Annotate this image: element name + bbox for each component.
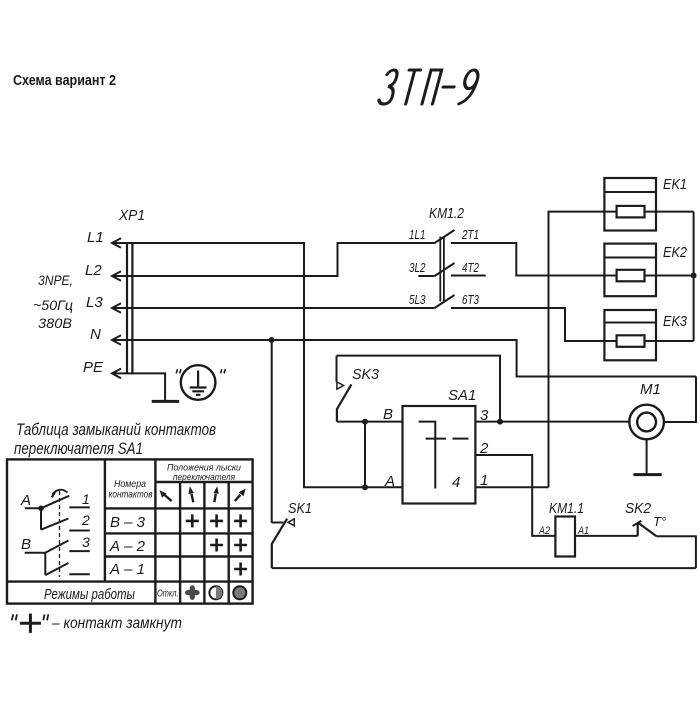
svg-text:L3: L3 [86,294,103,311]
position arrow cell 3 [213,486,219,502]
svg-text:L2: L2 [85,262,102,279]
junction node EK2 right on bus [691,273,697,279]
svg-text:3NPE,: 3NPE, [38,272,73,288]
table header text [109,463,242,501]
wire L2: XP1 up to contact 1L1 [112,243,435,276]
legend: "+" contact closed [12,614,182,633]
heater EK2 [604,244,687,297]
svg-text:Таблица замыканий контактов: Таблица замыканий контактов [16,421,216,439]
svg-text:А – 2: А – 2 [109,538,146,555]
wire EK2 right lead [645,275,694,277]
plus mark row A-1 [234,563,247,576]
wire SA1 pin 3 to M1 [475,421,629,423]
wire stub 3L2 [418,275,434,277]
plus marks row A-2 [210,539,247,552]
wire N: XP1 to M1 right side [112,340,696,377]
svg-text:SA1: SA1 [448,387,476,404]
pin arrow L3 [112,303,121,313]
svg-text:Номера: Номера [114,479,146,490]
pin arrow L2 [112,271,121,281]
svg-text:контактов: контактов [109,490,153,501]
supply value label 3NPE ~50Гц 380В [33,272,73,331]
svg-text:~50Гц: ~50Гц [33,297,73,313]
svg-text:KM1.1: KM1.1 [549,500,584,517]
svg-text:4T2: 4T2 [462,260,480,275]
svg-text:PE: PE [83,359,104,376]
svg-text:6T3: 6T3 [462,292,480,307]
svg-text:переключателя SA1: переключателя SA1 [14,440,143,458]
svg-text:Режимы работы: Режимы работы [44,586,135,603]
svg-text:L1: L1 [87,229,104,246]
svg-text:переключателя: переключателя [173,472,235,483]
limit switch SK1 [272,340,312,568]
wire KM1.1 A1 to SK2 [575,535,638,537]
SA1 contact diagram: common B [21,534,90,575]
wire control bottom rail [272,567,696,569]
svg-text:T°: T° [653,514,666,529]
SA1 contact diagram: common A [20,491,90,531]
svg-text:B: B [383,406,393,423]
ground PE chassis bar [152,400,180,403]
pin arrow PE [112,369,121,379]
position arrow cell 1 [160,490,172,501]
table frame [7,459,253,603]
svg-text:SK3: SK3 [352,366,380,383]
wire M1 right to N [664,377,696,423]
position arrow cell 4 [235,489,246,502]
pin arrow N [112,335,121,345]
KM1.2 mechanical linkage [440,237,444,302]
motor M1 [629,381,664,439]
wire SA1 pin 1 [475,486,548,488]
svg-text:SK2: SK2 [625,500,652,517]
wire EK1 left lead down to SA1 pin 1 [549,212,617,488]
earth symbol in circle [176,365,225,400]
svg-text:1L1: 1L1 [409,227,426,242]
svg-text:2T1: 2T1 [461,227,479,242]
svg-text:KM1.2: KM1.2 [429,205,465,222]
contactor coil KM1.1 [538,500,589,557]
svg-text:B: B [21,536,31,553]
wire PE to ground [112,373,165,401]
svg-text:3: 3 [82,534,90,550]
wire node B to SA1 [337,421,403,423]
svg-text:1: 1 [82,491,90,507]
svg-text:2: 2 [81,512,90,528]
mode icon full circle [233,586,246,599]
KM1.2 contact 1L1-2T1 blade [435,230,455,243]
SA1 contact diagram: rotation arc [51,490,68,498]
mode icon half circle [209,586,222,599]
svg-text:A2: A2 [538,525,550,537]
limit switch SK3 [337,356,380,422]
svg-text:– контакт замкнут: – контакт замкнут [51,615,182,632]
heater EK1 [604,176,687,231]
plus marks row B-3 [186,514,247,527]
svg-text:EK1: EK1 [663,176,687,193]
thermal switch SK2 [625,500,666,536]
svg-text:SK1: SK1 [288,500,312,517]
junction node on N [269,337,275,343]
svg-text:В – 3: В – 3 [110,514,146,531]
svg-text:4: 4 [452,474,460,491]
svg-text:A: A [20,492,31,509]
wire 6T3 to EK3 left [451,308,617,341]
svg-text:5L3: 5L3 [409,292,426,307]
svg-text:А – 1: А – 1 [109,561,145,578]
wire L3: XP1 to contact 5L3 [112,307,435,309]
SA1 contact diagram: shaft dashed line [59,491,61,577]
ground M1 chassis bar [633,473,661,476]
KM1.2 contact 3L2-4T2 blade [435,263,455,276]
wire B to A link [364,422,366,488]
junction node on B wire [362,419,368,425]
wire stub 4T2 [451,275,486,277]
svg-text:XP1: XP1 [118,207,145,224]
title ЗТП-9 [378,70,480,104]
junction node on A wire [362,484,368,490]
svg-text:N: N [90,326,101,343]
wire SA1 pin 2 to KM1.1 A2 [475,455,555,536]
wire EK1 right lead [645,211,694,213]
mode icon clover [185,585,200,600]
wire SK3 top loop to node 3 [337,356,501,422]
switch SA1 [383,387,489,504]
svg-text:M1: M1 [640,381,661,398]
svg-text:A: A [384,473,395,490]
wire SK2 to bottom rail [657,536,696,568]
heater EK3 [604,310,687,360]
wire L1: XP1 to SA1 pin A [112,243,403,487]
pin arrow L1 [112,238,121,248]
svg-text:Откл.: Откл. [157,588,179,600]
svg-text:EK2: EK2 [663,244,688,261]
svg-text:3L2: 3L2 [409,260,426,275]
svg-text:380В: 380В [38,315,72,331]
junction node 3 [497,419,503,425]
wire EK common bus [693,212,695,341]
svg-text:EK3: EK3 [663,313,688,330]
wire EK3 right lead [645,340,694,342]
wire M1 to ground [646,439,648,474]
KM1.2 contact 5L3-6T3 blade [435,295,455,308]
svg-text:Схема вариант 2: Схема вариант 2 [13,73,116,89]
connector XP1 double lines [127,242,132,374]
position arrow cell 2 [189,486,194,502]
wire 2T1 to EK2 left [451,243,617,276]
